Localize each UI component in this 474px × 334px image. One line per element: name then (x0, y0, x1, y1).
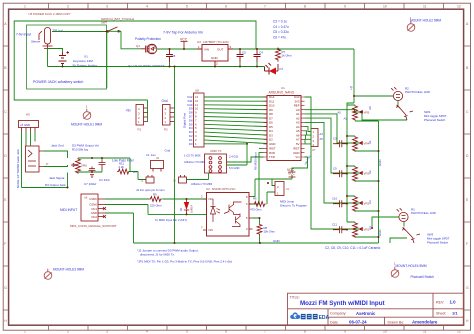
svg-text:OUT: OUT (217, 47, 224, 51)
arduino U1 left pin names (269, 95, 276, 159)
svg-text:1: 1 (24, 330, 26, 334)
potentiometer VR5 (353, 105, 363, 121)
svg-text:LM7805T (TO-220): LM7805T (TO-220) (203, 40, 229, 44)
svg-text:Mobile 1/4" MONO Audio Jack: Mobile 1/4" MONO Audio Jack (16, 149, 20, 188)
svg-text:5: 5 (186, 5, 188, 9)
svg-text:9: 9 (344, 330, 346, 334)
jumper J1 (275, 182, 284, 196)
wires H3 down (22, 132, 36, 188)
NOTES (137, 248, 232, 263)
arduino U1 body (267, 96, 301, 161)
svg-text:J1: J1 (286, 187, 289, 191)
svg-text:2: 2 (67, 330, 69, 334)
svg-text:R10 50k log: R10 50k log (72, 147, 88, 151)
capacitor C1 (99, 161, 106, 170)
EasyEDA logo cloud (290, 312, 300, 319)
battery X1 label (73, 55, 97, 68)
svg-text:C8: C8 (172, 54, 176, 58)
svg-text:J4: J4 (156, 156, 159, 160)
svg-text:Vin: Vin (295, 155, 300, 159)
svg-text:4: 4 (146, 5, 148, 9)
svg-text:C3: C3 (333, 136, 337, 140)
jumper J2 (146, 175, 154, 183)
wire CSRC to R9 (105, 198, 149, 200)
wire CSNK path (105, 205, 207, 215)
svg-text:C5: C5 (242, 51, 246, 55)
svg-text:Jack Gnd: Jack Gnd (51, 143, 64, 147)
svg-text:G: G (4, 286, 7, 290)
border left ruler ticks (3, 46, 8, 310)
mount hole H1 mid left (71, 105, 102, 127)
svg-text:C9: C9 (333, 166, 337, 170)
mount hole H4 bottom right (391, 261, 434, 278)
regulator U3 body (197, 45, 233, 67)
switch SW2 label (424, 110, 447, 122)
resistor R8 (257, 224, 262, 236)
svg-text:D7: D7 (280, 67, 284, 71)
svg-text:REV:: REV: (436, 300, 444, 304)
svg-text:CSRC: CSRC (89, 197, 97, 201)
resistor R6 (254, 202, 266, 207)
svg-text:11: 11 (423, 5, 427, 9)
switch SW2 (397, 105, 414, 120)
svg-text:Amendolare: Amendolare (412, 320, 438, 325)
svg-text:RXD: RXD (269, 151, 275, 155)
svg-text:P2: P2 (164, 128, 168, 132)
capacitor C11 (333, 226, 347, 233)
svg-text:U3: U3 (197, 40, 201, 44)
svg-text:MIDI TX: MIDI TX (211, 149, 222, 153)
svg-text:Photocell Switch: Photocell Switch (411, 275, 435, 279)
connector P1 (136, 105, 148, 126)
svg-text:A0: A0 (338, 110, 342, 114)
capacitor C5 (237, 49, 244, 62)
svg-text:C2, C8, C9, C10, C11 = 0.1uF C: C2, C8, C9, C10, C11 = 0.1uF Ceramic (325, 246, 381, 250)
wire R6 to J1 (267, 192, 276, 204)
svg-text:TXD: TXD (269, 155, 275, 159)
LED D7 (265, 63, 279, 75)
svg-text:P1: P1 (138, 128, 142, 132)
resistor R7 (276, 48, 281, 62)
VCC symbol under arduino (289, 168, 296, 172)
wires arduino analog to pots (305, 97, 363, 229)
SECTIONS (14, 21, 256, 100)
wire opto vcc (253, 177, 293, 197)
svg-text:U6: U6 (84, 195, 88, 199)
arduino U1 right pin names (293, 95, 300, 159)
opto U2 pins left (203, 199, 207, 230)
svg-text:Keystone 12M: Keystone 12M (73, 59, 93, 63)
svg-text:C11: C11 (332, 222, 337, 226)
svg-text:6N138 OPTO-ISO: 6N138 OPTO-ISO (212, 187, 236, 191)
svg-text:Date:: Date: (330, 320, 339, 324)
svg-text:10: 10 (383, 5, 387, 9)
svg-text:A1: A1 (368, 140, 372, 144)
jumper J4 (151, 161, 164, 172)
svg-text:MOUNT-HOLE1 9MM: MOUNT-HOLE1 9MM (71, 123, 102, 127)
svg-text:8: 8 (304, 5, 306, 9)
svg-text:C4 = 0.47u: C4 = 0.47u (273, 25, 289, 29)
svg-text:TITLE:: TITLE: (290, 295, 300, 299)
svg-text:Q1: Q1 (136, 44, 140, 48)
svg-text:1/1: 1/1 (452, 311, 458, 316)
junction dots midi (174, 182, 270, 244)
svg-text:+5v: +5v (126, 109, 132, 113)
diode D1 (184, 199, 189, 214)
svg-text:5V: 5V (296, 142, 300, 146)
POWER (16, 12, 354, 88)
switch SW3 (403, 228, 421, 244)
svg-text:N/C: N/C (209, 228, 214, 232)
HOLES (44, 16, 441, 279)
svg-text:GND: GND (211, 56, 219, 60)
ARDUINO (227, 86, 363, 229)
midi input pin names (89, 197, 97, 219)
resistor R9 (149, 197, 162, 202)
svg-text:470 Ohm: 470 Ohm (250, 208, 262, 212)
wires arduino A4 A5 to connector U7 (305, 127, 312, 144)
jumper J3 (179, 175, 187, 183)
svg-text:Jack Signal: Jack Signal (49, 176, 65, 180)
svg-text:Polarity Protection: Polarity Protection (135, 37, 161, 41)
svg-text:3-Built-in TX MIDI: 3-Built-in TX MIDI (184, 160, 205, 164)
wire jack tip to switch (52, 31, 105, 33)
svg-text:8: 8 (304, 330, 306, 334)
wire to jumpers (130, 172, 146, 180)
wires pot to caps (78, 158, 120, 172)
svg-text:VCC: VCC (288, 171, 295, 175)
wire Vin to VCC (292, 157, 308, 172)
svg-text:ARDUINO_NANO: ARDUINO_NANO (269, 90, 295, 94)
svg-text:2,4-D11: 2,4-D11 (229, 154, 239, 158)
svg-text:PHOTOCELL LDR: PHOTOCELL LDR (411, 211, 437, 215)
svg-text:U2: U2 (206, 187, 210, 191)
wires RXD TXD exits (227, 148, 264, 204)
RAIL5V (273, 19, 354, 103)
svg-text:A0: A0 (368, 106, 372, 110)
svg-text:MOUNT-HOLE2 9MM: MOUNT-HOLE2 9MM (410, 18, 441, 22)
wires jack to pot (22, 151, 68, 188)
svg-text:7-9V Tap For Arduino Vin: 7-9V Tap For Arduino Vin (163, 30, 203, 34)
connector H3 (19, 121, 39, 132)
svg-text:2.2k: 2.2k (119, 165, 125, 169)
svg-text:SW?: SW? (101, 21, 108, 25)
AUDIO (16, 143, 146, 188)
svg-text:Company:: Company: (330, 311, 346, 315)
svg-text:MIDI INPUT: MIDI INPUT (60, 208, 77, 212)
junction dots pots (346, 95, 380, 238)
svg-text:NC1: NC1 (91, 207, 97, 211)
svg-text:1-C5 TX MIDI: 1-C5 TX MIDI (184, 153, 201, 157)
svg-text:U8: U8 (195, 88, 199, 92)
svg-text:VR5: VR5 (364, 111, 370, 115)
svg-text:C4: C4 (259, 51, 263, 55)
ground return wire (48, 49, 265, 72)
svg-text:06-07-24: 06-07-24 (349, 320, 367, 325)
connector P2 (163, 105, 175, 126)
capacitor C8 (166, 49, 173, 62)
wire +5v loop around power section (14, 21, 256, 100)
wire midi gnd down (105, 213, 134, 243)
svg-text:U5 POWER JACK 2.1MM COPY: U5 POWER JACK 2.1MM COPY (29, 12, 71, 16)
svg-text:Q1 = P-CHANNEL MOSFET: Q1 = P-CHANNEL MOSFET (128, 64, 165, 68)
capacitor C9 (333, 170, 347, 177)
wires header to arduino (204, 97, 267, 144)
svg-text:A2: A2 (368, 170, 372, 174)
photocell R2 (391, 87, 402, 100)
svg-text:12: 12 (457, 330, 461, 334)
capacitor C10 (333, 200, 347, 207)
svg-text:7: 7 (264, 330, 266, 334)
svg-text:MOUNT-HOLE4 9MM: MOUNT-HOLE4 9MM (396, 264, 427, 268)
header U8 net labels (187, 95, 193, 146)
svg-text:N/C: N/C (209, 197, 214, 201)
svg-text:PHOTOCELL LDR: PHOTOCELL LDR (405, 90, 431, 94)
border bottom ruler ticks (49, 325, 444, 330)
switch SW1 symbol (105, 27, 121, 32)
svg-text:D0: D0 (189, 142, 193, 146)
svg-text:NC2: NC2 (91, 215, 97, 219)
VCC symbol opto (289, 175, 296, 177)
svg-text:10k Ohm: 10k Ohm (264, 230, 276, 234)
svg-text:D2: D2 (269, 138, 273, 142)
svg-text:C5 = 0.33u: C5 = 0.33u (273, 30, 289, 34)
wire regulator out (233, 48, 354, 50)
junction on D1 wire (246, 143, 248, 145)
svg-text:12: 12 (457, 5, 461, 9)
title block outline (288, 293, 464, 325)
svg-text:Mozzi FM Synth w/MIDI Input: Mozzi FM Synth w/MIDI Input (300, 300, 385, 307)
junction gnd tap (174, 66, 176, 68)
svg-text:Photocell Switch: Photocell Switch (424, 118, 446, 122)
photocell R1 (397, 208, 408, 221)
EasyEDA logo text (301, 314, 318, 319)
gnd rail right (355, 121, 379, 243)
svg-text:Digital Pins: Digital Pins (183, 112, 187, 128)
svg-text:+5 GND: +5 GND (20, 123, 30, 127)
capacitor C2a (333, 140, 347, 147)
wire switch to Q1 (107, 31, 141, 88)
svg-text:GND: GND (293, 151, 299, 155)
arduino U1 right pin stubs (301, 97, 305, 157)
svg-text:D3: D3 (133, 170, 137, 174)
svg-text:Axetronic: Axetronic (356, 311, 376, 316)
svg-text:C10: C10 (332, 196, 338, 200)
svg-text:Sleeve: Sleeve (31, 39, 41, 43)
svg-text:6: 6 (225, 330, 227, 334)
svg-text:2: 2 (67, 5, 69, 9)
svg-text:J7: J7 (46, 162, 49, 166)
wire D0 to midi tx (227, 144, 247, 165)
header U8 pin numbers (195, 95, 199, 146)
opto U2 pins right (249, 197, 253, 230)
MIDI (60, 144, 378, 244)
junction dots power (62, 30, 280, 67)
svg-text:Gnd: Gnd (162, 99, 168, 103)
gnd bus bottom (134, 242, 379, 244)
svg-text:VR6: VR6 (81, 164, 87, 168)
capacitor C7 (89, 167, 96, 178)
junction dots audio (67, 157, 104, 189)
wire opto pin5 to R8 (253, 218, 260, 224)
svg-text:F: F (4, 242, 6, 246)
svg-text:1N914: 1N914 (190, 205, 194, 213)
arduino U1 left pin stubs (264, 97, 268, 157)
svg-text:9: 9 (344, 5, 346, 9)
wire R9 to opto (163, 198, 207, 200)
svg-text:A5: A5 (320, 137, 324, 141)
svg-text:4: 4 (146, 330, 148, 334)
border top ruler ticks (49, 3, 444, 9)
svg-text:7-9v Input: 7-9v Input (16, 32, 31, 36)
wire R8 to gnd (259, 236, 261, 244)
svg-text:RX MIDI Input: RX MIDI Input (254, 152, 258, 170)
+V rail for pots (347, 103, 355, 222)
svg-text:U1: U1 (281, 86, 285, 90)
svg-text:MIDI_CONN_FEMALE_SUPPORT: MIDI_CONN_FEMALE_SUPPORT (70, 224, 117, 228)
svg-text:GND: GND (378, 160, 382, 166)
connector U7 net labels (320, 132, 324, 141)
svg-text:6: 6 (225, 5, 227, 9)
svg-text:EDA: EDA (319, 315, 330, 321)
connector U7 (311, 129, 318, 147)
svg-text:GND: GND (269, 142, 275, 146)
svg-text:220 Ohm: 220 Ohm (150, 204, 162, 208)
svg-text:11: 11 (423, 330, 427, 334)
wire lpf to D3 (120, 158, 131, 172)
svg-text:1.0: 1.0 (450, 299, 457, 304)
power section green box (27, 25, 107, 89)
svg-text:Drawn By:: Drawn By: (388, 320, 405, 324)
svg-text:MOUNT-HOLE3 9MM: MOUNT-HOLE3 9MM (53, 267, 84, 271)
battery loop wire (48, 49, 63, 53)
svg-text:GND: GND (273, 239, 281, 243)
svg-text:disconnect J1 for MIDI Tx.: disconnect J1 for MIDI Tx. (140, 253, 175, 257)
svg-text:Photocell Switch: Photocell Switch (427, 241, 449, 245)
opto U2 internals (211, 199, 242, 227)
svg-text:A4: A4 (320, 132, 324, 136)
svg-text:10: 10 (383, 330, 387, 334)
VCC symbol power (181, 42, 188, 50)
mount hole H2 top right (407, 16, 441, 31)
capacitor C4 (254, 49, 261, 62)
svg-text:A3: A3 (368, 200, 372, 204)
regulator U3 pin names (198, 45, 232, 66)
svg-text:C2 .1um: C2 .1um (146, 153, 156, 157)
mosfet Q1 symbol (141, 44, 157, 54)
midi input connector U6 (81, 194, 106, 221)
svg-text:R6: R6 (253, 197, 257, 201)
svg-text:3: 3 (106, 330, 108, 334)
header U8 body (194, 93, 205, 147)
HEADERS (19, 66, 268, 244)
battery X1 symbol (59, 51, 69, 66)
svg-text:G: G (466, 286, 469, 290)
svg-text:3: 3 (106, 5, 108, 9)
potentiometer VR4 (353, 136, 363, 152)
wire +5v feed P1 (147, 100, 149, 122)
cap values note (273, 19, 289, 39)
wire gnd vertical long (174, 67, 176, 244)
svg-text:A7: A7 (296, 138, 300, 142)
photocell R1 wire (372, 217, 407, 243)
switch SW3 label (427, 233, 450, 245)
opto U2 body (207, 193, 250, 237)
svg-text:3-Built-in TX MIDI: 3-Built-in TX MIDI (191, 182, 212, 186)
svg-text:1: 1 (24, 5, 26, 9)
svg-text:GND: GND (378, 230, 382, 236)
photocell R2 wire (354, 96, 407, 120)
svg-text:VCC: VCC (180, 37, 188, 41)
svg-text:To MIDI Input Pin 2 (DIY): To MIDI Input Pin 2 (DIY) (155, 218, 187, 222)
svg-text:Disconn. To Program: Disconn. To Program (280, 204, 308, 208)
midi tx header JP1 (205, 154, 227, 173)
svg-text:C1 33nf: C1 33nf (99, 178, 110, 182)
svg-text:Gnd: Gnd (165, 149, 171, 153)
wire +5V down right side (353, 49, 355, 103)
svg-text:C6 = 47u: C6 = 47u (273, 36, 286, 40)
potentiometer VR3 (353, 166, 363, 182)
svg-text:J2 For opto pin 6 conn: J2 For opto pin 6 conn (136, 188, 165, 192)
potentiometer VR6 (71, 158, 81, 174)
potentiometer VR1 (353, 222, 363, 238)
svg-text:*JP1 MIDI TX: Pin 1-D3; Pin 3-: *JP1 MIDI TX: Pin 1-D3; Pin 3-Built-in T… (137, 259, 232, 263)
audio jack J7 (26, 146, 45, 172)
svg-text:H3: H3 (26, 113, 30, 117)
svg-text:1k Ohm: 1k Ohm (282, 54, 293, 58)
mount hole H3 bottom left (44, 267, 84, 279)
svg-text:7: 7 (264, 5, 266, 9)
svg-text:F: F (466, 242, 468, 246)
svg-text:VIN: VIN (204, 47, 209, 51)
svg-text:R9: R9 (153, 193, 157, 197)
power jack J5 symbol (39, 28, 53, 49)
svg-text:C3 = 0.1u: C3 = 0.1u (273, 19, 287, 23)
svg-text:D1: D1 (179, 207, 183, 211)
wire jumpers to midi tx (186, 173, 209, 180)
svg-text:5: 5 (186, 330, 188, 334)
TITLEBLOCK (288, 293, 464, 325)
svg-text:POWER JACK w/battery switch: POWER JACK w/battery switch (33, 80, 83, 84)
svg-text:X1: X1 (84, 55, 88, 59)
svg-text:U7: U7 (312, 148, 316, 152)
svg-text:Sheet:: Sheet: (436, 311, 446, 315)
border right ruler ticks (464, 46, 471, 310)
resistor R11 (117, 169, 130, 174)
svg-text:D3 Output Jack: D3 Output Jack (45, 183, 66, 187)
wire Q1 to regulator rail (157, 48, 200, 50)
svg-text:C7 100uf: C7 100uf (84, 182, 96, 186)
POTS (325, 86, 450, 249)
potentiometer VR2 (353, 196, 363, 212)
svg-text:5,6 GND: 5,6 GND (229, 166, 240, 170)
